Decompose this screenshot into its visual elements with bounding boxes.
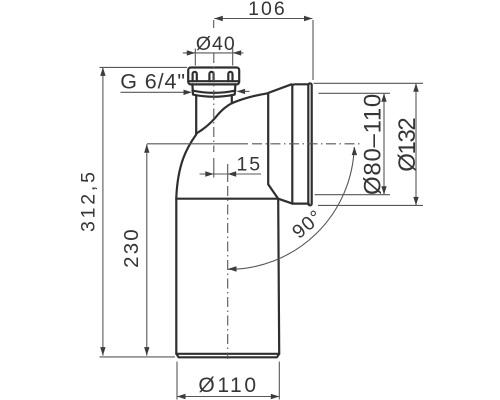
dimension 106 right extension line <box>312 20 314 80</box>
centerline socket axis (dash-dot) <box>252 143 361 145</box>
inlet pipe left edge + elbow outer arc + lower pipe left + bottom + lower pipe right <box>176 95 279 357</box>
extension line inlet axis to 15-dim <box>213 158 215 178</box>
extension line outlet axis upper <box>227 164 229 182</box>
dimension 230 line <box>146 144 148 355</box>
arrowhead 15 right <box>228 171 237 176</box>
arrowhead D80-110 bottom <box>381 186 386 195</box>
arrowhead arc left end <box>228 266 236 271</box>
90 degree arc <box>228 147 354 269</box>
svg-text:Ø40: Ø40 <box>196 33 236 55</box>
arrowhead 230 bottom <box>144 347 149 356</box>
rim face capsule <box>308 83 311 205</box>
dimension 106 line <box>214 18 312 20</box>
arrowhead 230 top <box>144 144 149 153</box>
cone bottom short diagonal to rim <box>278 199 292 204</box>
arrowhead D40 right <box>233 50 242 55</box>
dimension D110 extension lines <box>176 362 178 400</box>
dimension D80-110 line <box>383 93 385 194</box>
G 6/4 right arrow tail <box>238 90 250 92</box>
inlet pipe right edge <box>231 95 233 103</box>
arrowhead D110 left <box>177 394 186 399</box>
svg-text:Ø132: Ø132 <box>394 118 421 172</box>
svg-text:230: 230 <box>120 227 143 268</box>
svg-text:Ø80–110: Ø80–110 <box>360 93 387 195</box>
arrowhead 106 left <box>214 16 223 21</box>
svg-text:90°: 90° <box>288 206 327 244</box>
arrowhead 312,5 bottom <box>100 347 105 356</box>
arrowhead 106 right <box>304 16 313 21</box>
cone top contour to rim <box>232 84 292 103</box>
dimension D40 extension lines <box>194 49 196 66</box>
dimension D132 line <box>415 83 417 205</box>
nut slot 3 <box>228 72 232 81</box>
nut (threaded cap) body <box>188 68 239 85</box>
arrowhead G64 right <box>237 89 246 94</box>
nut slot 1 <box>193 72 197 81</box>
arrowhead 15 left <box>205 171 214 176</box>
dimension D80-110 extension lines <box>319 92 391 94</box>
extension line 312,5 top (nut top) <box>100 66 188 68</box>
seam vertical on cone + diagonal to pipe edge <box>268 93 278 199</box>
arrowhead D80-110 top <box>381 93 386 102</box>
crease between inlet pipe and cone <box>196 103 232 133</box>
arrowhead G64 left <box>184 90 193 95</box>
nut inner bottom line <box>188 80 239 82</box>
arrowhead D110 right <box>271 394 280 399</box>
centerline outlet axis (dash-dot) <box>227 186 229 359</box>
dimension D110 line <box>177 396 279 398</box>
arrowhead D132 bottom <box>413 197 418 206</box>
svg-text:312,5: 312,5 <box>78 169 100 232</box>
extension line 230 top / socket axis solid <box>147 143 248 145</box>
G 6/4 leader underline <box>121 91 185 93</box>
dimension 312,5 line <box>102 67 104 355</box>
arrowhead 312,5 top <box>100 67 105 76</box>
svg-text:G 6/4": G 6/4" <box>120 69 186 93</box>
arrowhead arc top end <box>352 147 357 156</box>
dimension 106 left stub <box>213 20 215 28</box>
svg-text:15: 15 <box>236 153 262 175</box>
collar thread arc <box>192 91 235 93</box>
arrowhead D132 top <box>413 83 418 92</box>
nut slot 2 <box>209 72 213 81</box>
collar under nut with sagging thread bottom <box>192 84 235 96</box>
dimension 15 line with tails <box>200 173 228 175</box>
dimension D40 line with tails <box>183 52 244 54</box>
horizontal seam elbow/lower pipe <box>176 198 278 200</box>
svg-text:106: 106 <box>248 0 287 20</box>
centerline inlet axis (dash-dot) <box>213 53 215 152</box>
arrowhead D40 left <box>187 50 196 55</box>
svg-text:Ø110: Ø110 <box>198 374 258 397</box>
rim band (socket flange) <box>292 84 309 203</box>
extension line bottom shared 312,5/230 <box>100 356 176 358</box>
dimension D132 extension lines <box>314 82 424 84</box>
lower pipe bottom chamfer line <box>176 353 279 355</box>
